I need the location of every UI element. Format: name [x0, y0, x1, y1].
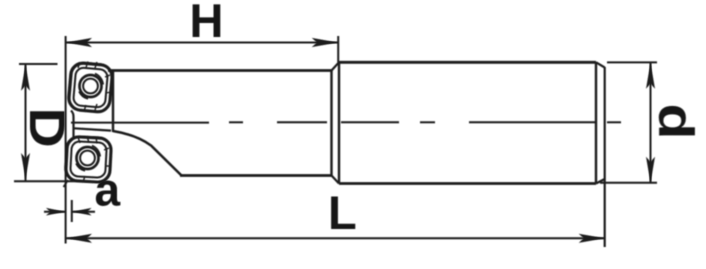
arrowhead d bottom: [646, 157, 655, 183]
arrowhead H left: [66, 38, 92, 47]
cutter body top edge: [108, 69, 332, 72]
arrowhead L left: [66, 234, 92, 243]
arrowhead D bottom: [21, 153, 30, 179]
svg-text:D: D: [19, 108, 75, 148]
shank end chamfer bottom: [596, 179, 605, 184]
insert I2 (bottom): [64, 135, 112, 183]
arrowhead L right: [579, 234, 605, 243]
center line: [71, 121, 621, 123]
arrowhead a left: [46, 208, 65, 216]
insert I2 screw hole: [77, 147, 99, 169]
insert I1 (top): [67, 61, 114, 113]
body/shank junction line right: [338, 62, 340, 183]
svg-text:d: d: [649, 104, 703, 140]
dim d line: [650, 63, 652, 183]
dim D line: [25, 64, 27, 182]
dim L line: [66, 237, 605, 239]
svg-text:L: L: [328, 186, 357, 239]
dim a extension right: [71, 200, 73, 222]
insert I1 screw hole: [80, 75, 102, 97]
insert pocket vertical line: [112, 71, 114, 133]
dim H extension left: [65, 36, 67, 244]
cutter body bottom edge: [180, 174, 332, 177]
dim d extension bottom: [600, 182, 657, 184]
shank end face: [604, 67, 606, 247]
dim H extension right: [337, 36, 339, 62]
dim H line: [66, 42, 338, 44]
body/shank junction line left: [330, 71, 332, 176]
dim D extension top: [19, 63, 58, 65]
arrowhead D top: [21, 65, 30, 91]
svg-text:a: a: [95, 164, 121, 216]
junction chamfer top: [332, 62, 340, 70]
insert I1 edge ticks: [78, 62, 111, 112]
insert I2 edge ticks: [78, 137, 110, 183]
dim d extension top: [607, 61, 657, 63]
shank bottom edge: [339, 182, 596, 185]
shank end chamfer line: [595, 62, 597, 183]
flute shelf line: [74, 128, 111, 130]
dim D extension bottom: [14, 180, 86, 182]
arrowhead a right: [72, 208, 91, 216]
shank end chamfer top: [596, 62, 605, 67]
dim a tail left: [44, 211, 65, 213]
insert I2 corner tail: [64, 180, 69, 187]
arrowhead H right: [312, 38, 338, 47]
arrowhead d top: [646, 63, 655, 89]
head front face line: [71, 111, 74, 138]
junction chamfer bottom: [332, 176, 340, 184]
dim a tail right: [73, 211, 96, 213]
shank top edge: [339, 61, 596, 64]
flute curve: [113, 131, 182, 176]
svg-text:H: H: [190, 0, 224, 47]
